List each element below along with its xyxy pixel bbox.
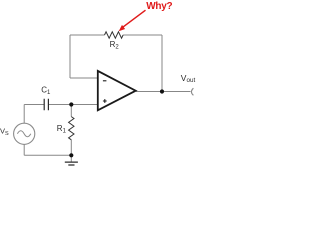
svg-text:R1: R1: [57, 124, 67, 135]
wire source top vertical: [23, 105, 25, 124]
output terminal arc: [191, 88, 193, 95]
voltage source VS circle: [14, 123, 35, 144]
wire feedback right vertical: [161, 35, 163, 92]
junction dot at + input: [69, 102, 73, 106]
annotation arrow: [123, 10, 146, 27]
resistor R1: [69, 117, 74, 140]
wire bottom return: [24, 154, 71, 156]
voltage source sine wave: [17, 131, 30, 137]
wire capacitor to op-amp: [49, 104, 98, 106]
svg-text:VS: VS: [0, 127, 9, 137]
junction dot at output node: [160, 89, 164, 93]
svg-text:Why?: Why?: [146, 1, 172, 12]
wire inverting input: [70, 77, 98, 79]
wire R1 top lead: [70, 105, 72, 117]
op-amp U1: [98, 71, 136, 110]
op-amp plus sign: [103, 99, 107, 103]
wire feedback left vertical: [69, 35, 71, 78]
capacitor C1: [44, 99, 48, 111]
ground: [65, 162, 78, 165]
wire R1 bottom lead: [70, 140, 72, 156]
svg-text:C1: C1: [41, 85, 51, 96]
op-amp minus sign: [103, 80, 107, 82]
resistor R2: [105, 32, 124, 38]
wire output: [136, 91, 191, 93]
svg-text:R2: R2: [110, 40, 120, 51]
wire feedback top right segment: [123, 34, 162, 36]
wire feedback top left segment: [70, 34, 105, 36]
wire source to capacitor: [24, 104, 44, 106]
wire ground stub: [70, 155, 72, 162]
junction dot at bottom node: [69, 153, 73, 157]
svg-text:Vout: Vout: [181, 73, 196, 84]
wire source bottom vertical: [23, 144, 25, 155]
